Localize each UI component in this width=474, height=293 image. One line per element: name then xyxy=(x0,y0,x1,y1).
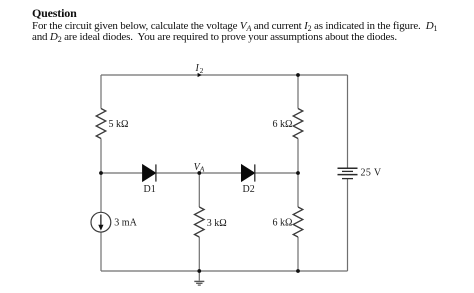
svg-text:D1: D1 xyxy=(144,184,156,195)
resistor upper 6k zigzag xyxy=(293,109,303,139)
wire right column vertical (top to upper 6k) xyxy=(297,75,299,109)
wire battery branch upper xyxy=(347,75,349,168)
current source I1 circle xyxy=(91,212,111,232)
wire top horizontal xyxy=(101,74,348,76)
wire left vertical mid (5k resistor to current source) xyxy=(100,139,102,213)
current source arrow xyxy=(100,215,102,227)
resistor 3k zigzag xyxy=(195,207,205,237)
svg-text:D2: D2 xyxy=(243,184,255,195)
battery 25V plates xyxy=(338,168,358,178)
diode D2 xyxy=(241,164,255,181)
wire VA branch vertical (VA node to 3k resistor) xyxy=(198,173,200,207)
current arrow I2 on top wire xyxy=(198,73,202,77)
svg-text:3 mA: 3 mA xyxy=(114,218,137,229)
wire VA branch vertical (3k resistor to bottom) xyxy=(198,237,200,271)
wire battery branch lower xyxy=(347,179,349,271)
wire middle horizontal (D2 cathode to right column) xyxy=(255,172,298,174)
wire middle horizontal (node to D1 anode) xyxy=(101,172,142,174)
svg-text:A: A xyxy=(199,165,205,174)
wire left vertical lower (current source to bottom) xyxy=(100,232,102,271)
wire middle horizontal (D1 cathode to VA) xyxy=(156,172,241,174)
svg-text:2: 2 xyxy=(200,66,204,75)
wire left vertical upper (top to 5k resistor) xyxy=(100,75,102,109)
junction node dots xyxy=(99,171,103,175)
svg-text:25 V: 25 V xyxy=(361,168,382,179)
resistor R 5k zigzag xyxy=(96,109,106,139)
diode D1 cathode bar xyxy=(155,164,157,181)
svg-text:5 kΩ: 5 kΩ xyxy=(109,119,129,130)
wire right column vertical (upper 6k to middle) xyxy=(297,139,299,208)
diode D1 xyxy=(142,164,156,181)
svg-text:6 kΩ: 6 kΩ xyxy=(273,119,293,130)
svg-text:3 kΩ: 3 kΩ xyxy=(207,218,227,229)
wire bottom horizontal xyxy=(101,270,348,272)
wire right column vertical (lower 6k to bottom) xyxy=(297,237,299,271)
diode D2 cathode bar xyxy=(254,164,256,181)
ground symbol xyxy=(194,281,204,285)
resistor lower 6k zigzag xyxy=(293,207,303,237)
wire ground stem xyxy=(198,271,200,281)
svg-text:6 kΩ: 6 kΩ xyxy=(273,217,293,228)
